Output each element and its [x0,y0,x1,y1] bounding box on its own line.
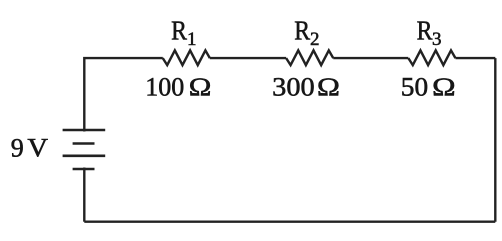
svg-text:V: V [27,134,48,163]
svg-text:Ω: Ω [432,73,456,102]
svg-text:1: 1 [187,29,197,50]
resistor R2 [286,50,333,65]
svg-text:Ω: Ω [317,74,341,102]
wire top-right segment [455,57,495,59]
svg-text:300: 300 [272,72,315,101]
svg-text:Ω: Ω [188,73,211,101]
svg-text:R: R [417,15,433,46]
wire left-bottom segment [83,168,85,222]
svg-text:2: 2 [310,29,320,50]
wire bottom [84,220,495,222]
wire top-left segment [84,58,163,131]
wire right side [494,58,496,222]
svg-text:R: R [171,15,187,46]
svg-text:3: 3 [432,29,442,50]
wire between R1 and R2 [210,57,286,59]
svg-text:9: 9 [11,134,24,163]
svg-text:100: 100 [145,72,184,101]
resistor R1 [163,50,210,65]
resistor R3 [408,50,455,65]
svg-text:R: R [294,15,310,46]
battery B1 [63,130,106,169]
svg-text:50: 50 [401,72,428,101]
wire between R2 and R3 [333,57,408,59]
